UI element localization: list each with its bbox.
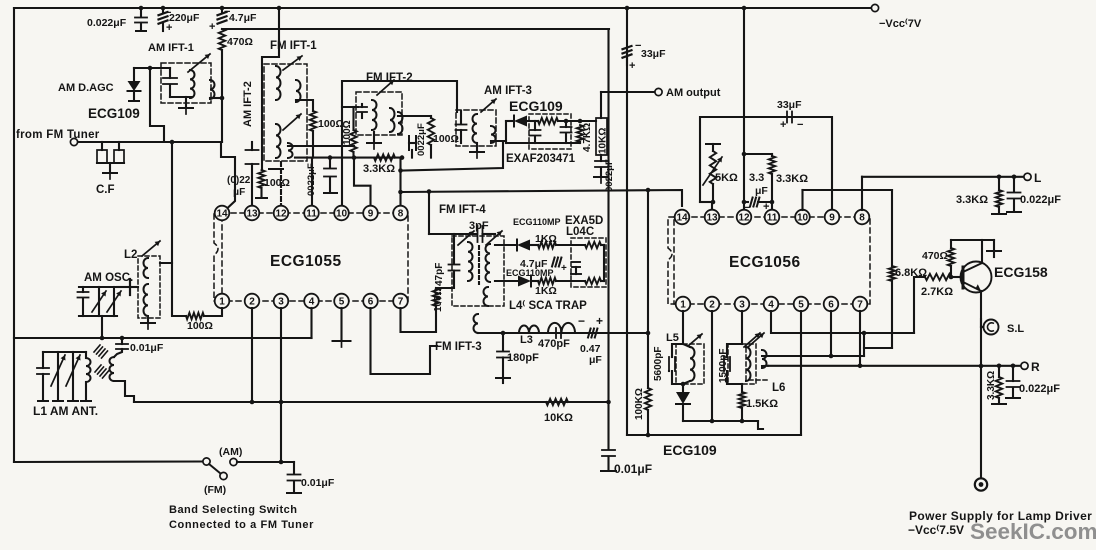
svg-text:3: 3 [278,297,284,308]
capacitor 4.7uF electrolytic [220,6,225,11]
svg-text:+: + [780,119,786,131]
IC ECG1056 pin 3 [735,297,750,312]
coil L2 upper [144,258,149,278]
svg-text:5: 5 [339,297,345,308]
capacitor 0022uF below 10K [600,155,602,161]
ground AM IFT-3 [476,143,478,151]
svg-text:0.01μF: 0.01μF [614,462,652,476]
svg-text:FM IFT-1: FM IFT-1 [270,40,317,52]
svg-text:10KΩ: 10KΩ [544,412,573,424]
wire AM output [601,91,655,93]
wire R output line [1021,362,1028,369]
resistor 100ohm FM IFT-2 left rotated [350,130,356,152]
IC ECG1055 pin 8 [393,206,408,221]
tuning arrow L2 [142,241,160,256]
svg-text:ECG109: ECG109 [509,98,563,114]
svg-text:0022μF: 0022μF [416,123,427,156]
tuning arrow FM IFT-4 right [486,231,502,245]
wire FM IFT-1 top feed [277,6,282,11]
capacitor 33uF electrolytic x627 [623,46,632,49]
IC ECG1056 pin 12 [737,210,752,225]
IC ECG1055 dashed outline [222,213,408,301]
svg-text:470pF: 470pF [538,338,570,350]
svg-text:1: 1 [219,297,225,308]
wire to ECG1056 pin14 [402,190,682,206]
svg-text:AM output: AM output [666,87,721,99]
capacitor 0.01uF switch [293,462,295,474]
coil AM IFT-3 coupling [491,126,496,143]
capacitor C 220uF electrolytic [161,6,166,11]
lamp S.L [981,326,984,328]
wire pin10 to 6.8K line [803,189,893,191]
varicap osc 2 [113,287,115,316]
capacitor 180pF [502,333,504,351]
coil L2 dashed box [138,256,160,318]
wire L6 bottom lead / R line [768,365,1021,367]
svg-text:13: 13 [706,213,718,224]
resistor EXA5D top [585,242,601,248]
diode ECG109 under L5 [681,382,686,387]
svg-text:13: 13 [246,209,258,220]
svg-text:100Ω: 100Ω [264,177,290,189]
svg-text:FM IFT-3: FM IFT-3 [435,341,482,353]
capacitor AM IFT-1 tank [169,68,171,78]
wire L output line [862,176,1024,178]
svg-text:220μF: 220μF [169,12,200,24]
svg-text:L1 AM ANT.: L1 AM ANT. [33,404,98,418]
varicap ant 2 [72,352,74,400]
svg-text:8: 8 [859,213,865,224]
svg-text:6: 6 [828,300,834,311]
capacitor FM IFT-2 tank [361,104,363,107]
coil FM IFT-4 secondary [486,244,490,282]
svg-text:100Ω: 100Ω [318,118,344,130]
tuning arrow FM IFT-2 [377,80,394,95]
svg-text:from FM Tuner: from FM Tuner [16,129,100,141]
wire pin8 stem [399,158,401,206]
wire switch to cap [237,461,294,463]
svg-text:L5: L5 [666,332,679,344]
svg-text:2: 2 [249,297,255,308]
svg-text:L4⁽ SCA TRAP: L4⁽ SCA TRAP [509,299,587,312]
capacitor 0.01uF ant [120,336,125,341]
transistor ECG158 [961,262,992,293]
wire jog to pin 14 [221,142,235,208]
svg-text:ECG158: ECG158 [994,264,1048,280]
wire pin1 stem [682,311,684,344]
transformer L1 primary [86,358,91,382]
coil AM IFT-3 primary [473,114,478,143]
coil FM IFT-1 upper secondary [296,80,301,102]
svg-text:+: + [596,314,603,328]
resistor 470ohm [950,240,952,248]
svg-text:FM IFT-2: FM IFT-2 [366,72,413,84]
resistor 100ohm rotated FM IFT-4 [433,288,439,306]
IC ECG1056 dashed outline [674,217,870,304]
IC ECG1055 pin 11 [304,206,319,221]
wire pin6 stem to L6 top [830,311,832,356]
wire L2 feed from CF line [171,142,173,263]
diode AM D.AGC ECG109 [134,67,170,69]
svg-text:4: 4 [768,300,774,311]
L6 dashed box [746,348,770,380]
antenna caps rail [43,351,86,353]
ceramic filter C.F [101,142,103,150]
resistor 3.3Kohm R rotated [998,366,1000,377]
diode ECG110MP top [517,240,530,251]
diode ECG109 detector [506,120,514,122]
svg-text:1KΩ: 1KΩ [535,285,557,297]
svg-text:FM IFT-4: FM IFT-4 [439,204,486,216]
svg-text:1KΩ: 1KΩ [535,233,557,245]
wire pin13 node [700,201,713,203]
coil L2 lower [143,284,148,316]
svg-text:2.7KΩ: 2.7KΩ [921,286,953,298]
svg-text:R: R [1031,360,1040,374]
wire osc rail to ant line [101,316,103,338]
wire EXAF bottom [506,142,580,144]
wire left border [13,8,15,462]
capacitor 3pF [477,226,479,242]
coil AM IFT-2 lower primary [276,124,281,158]
wire top -Vcc rail [14,7,871,9]
capacitor osc fixed [82,287,84,292]
bar AM IFT-2 bottom [269,168,283,170]
resistor 3.3Kohm L [998,177,1000,190]
IC ECG1055 pin 6 [363,294,378,309]
svg-text:L6: L6 [772,382,785,394]
IC ECG1056 pin 4 [764,297,779,312]
svg-text:L3: L3 [520,334,533,346]
svg-text:470Ω: 470Ω [922,250,948,262]
resistor 4.7Kohm rotated [577,125,583,142]
tank 1500pF dashed box [728,344,756,384]
wire vertical drop x609 [607,29,609,449]
svg-text:10: 10 [336,209,348,220]
wire 470ohm to pin14 node [221,50,223,142]
IC ECG1056 pin 1 [676,297,691,312]
svg-text:4.7μF: 4.7μF [229,12,257,24]
svg-text:−: − [578,314,585,328]
wire coupling out to 100ohm right [398,115,431,117]
wire EXA5D right [603,245,605,281]
svg-text:8: 8 [398,209,404,220]
svg-text:9: 9 [829,213,835,224]
svg-text:7: 7 [857,300,863,311]
svg-text:3pF: 3pF [469,220,489,232]
svg-text:EXAF203471: EXAF203471 [506,153,576,165]
svg-text:10KΩ: 10KΩ [598,128,609,154]
varicap osc 1 [98,287,100,316]
wire pin2 stem [251,308,253,402]
svg-text:0.022μF: 0.022μF [87,17,127,29]
wire L6 top lead [768,355,864,357]
resistor 1.5Kohm [741,384,743,392]
svg-text:3.3KΩ: 3.3KΩ [956,194,988,206]
coil FM IFT-1 upper primary [276,66,281,100]
capacitor 0022uF hanging [329,158,331,168]
svg-text:ECG110MP: ECG110MP [513,217,561,227]
wire pin3 stem [741,311,743,344]
ground L2 [147,318,149,322]
svg-text:AM D.AGC: AM D.AGC [58,82,114,94]
svg-text:3.3KΩ: 3.3KΩ [776,173,808,185]
wire L2 to pin1 [160,263,186,316]
svg-text:0.022μF: 0.022μF [1019,383,1060,395]
wire AM IFT-1 secondary to rail [210,97,222,99]
svg-text:100Ω: 100Ω [187,320,213,332]
core dashes FM IFT-4 [478,246,480,284]
capacitor ant fixed [42,352,44,368]
wire FM IFT-4 top [429,233,476,235]
svg-text:100Ω: 100Ω [342,120,353,145]
svg-text:7: 7 [398,297,404,308]
resistor detector row [527,120,538,122]
wire ant line [14,337,312,339]
resistor 3.3Kohm IF bus [374,154,395,160]
svg-text:μF: μF [589,354,602,366]
svg-text:180pF: 180pF [507,352,539,364]
coil AM IFT-1 primary [190,70,195,98]
wire primary feed [342,106,358,108]
terminal -Vcc 7V [871,4,878,11]
resistor 10Kohm [546,399,568,405]
coil 1500pF tank [746,347,751,381]
coil FM IFT-3 [474,314,479,333]
svg-text:AM OSC.: AM OSC. [84,272,133,284]
wire CF line [78,141,222,143]
IC ECG1055 pin 4 [304,294,319,309]
wire vertical x864 [863,333,865,356]
IC ECG1056 pin 9 [825,210,840,225]
capacitor 0.022uF R [1012,366,1014,381]
resistor 100ohm pin1 [186,313,204,319]
IC ECG1056 pin 6 [824,297,839,312]
transformer FM IFT-2 dashed box [356,92,402,135]
IC ECG1055 pin 2 [245,294,260,309]
varicap ant 1 [57,352,59,400]
svg-text:0022μF: 0022μF [604,159,615,192]
svg-text:14: 14 [216,209,228,220]
resistor 1Kohm top [530,244,538,246]
svg-text:(FM): (FM) [204,484,226,496]
resistor 1Kohm bottom [531,280,538,282]
capacitor EXAF 2 [565,121,567,127]
wire lamp to supply terminal [980,319,982,478]
transformer AM IFT-1 dashed box [161,63,211,103]
wire pin8 to L out [861,177,863,210]
ground collector [993,240,995,250]
coil AM IFT-1 secondary [210,80,215,99]
IC ECG1056 pin 7 [853,297,868,312]
svg-text:+: + [629,60,635,72]
resistor 100Kohm rotated [647,333,649,388]
oscillator caps rail [79,286,129,288]
wire collector [981,240,983,263]
IC ECG1056 pin 14 [675,210,690,225]
resistor 3.3Kohm at pin11 [744,153,772,155]
svg-text:5600pF: 5600pF [653,347,664,381]
svg-text:11: 11 [306,209,317,220]
svg-text:100KΩ: 100KΩ [634,388,645,420]
resistor 10Kohm boxed rotated [600,92,602,118]
IC ECG1055 pin 10 [334,206,349,221]
wire vertical x627 [626,8,628,435]
EXAF dashed box [529,114,571,149]
capacitor 470pF [555,328,557,338]
wire pin10 stem FM IFT-2 frame [341,158,343,206]
svg-text:10: 10 [797,213,809,224]
tuning arrow L5 [688,334,702,346]
wire pin3 stem to switch [280,308,282,462]
wire detector row top [495,244,517,246]
wire AM IFT-3 out [491,121,506,141]
terminal lamp supply [975,478,987,490]
IC ECG1055 pin 12 [274,206,289,221]
svg-text:47pF: 47pF [434,263,445,286]
wire FM IFT-4 feed [428,192,430,235]
IC ECG1055 pin 9 [363,206,378,221]
resistor 100ohm FM IFT-1 load [310,111,316,131]
capacitor 0022uF H style [408,136,410,150]
wire FM IFT-2 frame [342,81,457,158]
svg-text:4.7μF: 4.7μF [520,258,548,270]
capacitor 0.022uF L [1013,177,1015,192]
wire 33uF loop [700,117,832,209]
svg-text:5KΩ: 5KΩ [715,172,738,184]
coil AM IFT-2 lower secondary [288,143,293,158]
IC ECG1055 pin 13 [245,206,260,221]
capacitor AM IFT-3 tank [460,111,462,124]
ground FM IFT-2 [373,132,375,142]
svg-text:C.F: C.F [96,184,115,196]
wire secondary to long line [114,381,134,402]
svg-text:(0)22: (0)22 [227,175,251,186]
ground AM IFT-1 [185,97,187,107]
svg-text:−Vcc⁽7.5V: −Vcc⁽7.5V [908,523,964,537]
svg-text:470Ω: 470Ω [227,36,253,48]
capacitor EXAF 1 [534,121,536,130]
coil L5 [690,347,695,381]
wire 100ohm down to bus [312,131,314,158]
oscillator gate bar [117,286,128,288]
tuning arrow 1500pF tank [744,333,760,347]
switch band select AM [14,460,203,463]
resistor EXA5D bottom [585,278,601,284]
svg-text:2: 2 [709,300,715,311]
svg-text:11: 11 [767,213,778,224]
wire upper secondary to 100ohm [296,100,313,111]
svg-text:3.3KΩ: 3.3KΩ [986,371,997,400]
tuning arrow FM IFT-4 left [458,231,474,245]
svg-text:−: − [797,119,803,131]
wire second top rail [222,28,609,30]
svg-text:L04C: L04C [566,226,594,238]
svg-text:ECG109: ECG109 [88,106,140,121]
wire 168 line [402,143,503,171]
coil L3 [519,326,539,334]
tuning arrow AM IFT-3 [481,99,496,112]
ECG109 box bottom [627,434,801,436]
svg-text:μF: μF [755,185,768,197]
IC ECG1055 pin 3 [274,294,289,309]
wire pin7 to FM IFT-4 [401,306,437,332]
diode ECG110MP bottom [518,276,531,287]
wire collector top rail [951,239,994,241]
svg-text:+: + [209,21,215,33]
capacitor 0.01uF AGC [602,449,615,451]
svg-text:33μF: 33μF [641,48,666,60]
capacitor 3.3uF electrolytic [742,152,747,157]
svg-text:0.01μF: 0.01μF [130,342,164,354]
capacitor 0022uF at pin13 [251,142,253,150]
svg-text:AM IFT-1: AM IFT-1 [148,42,194,54]
tuning arrow FM IFT-1 [283,56,302,70]
resistor 2.7Kohm [914,277,925,333]
wire x648 vertical [647,190,649,333]
wire pin5 ground [340,308,342,340]
tuning arrow AM IFT-1 [188,54,210,72]
resistor 6.8Kohm [891,190,893,266]
transformer FM IFT-4 dashed box [452,236,504,306]
coil FM IFT-2 secondary [390,108,395,132]
capacitor EXA5D mid [572,261,580,263]
wire pin9 jog [354,158,371,206]
IC ECG1056 pin 5 [794,297,809,312]
capacitor 47pF [453,234,455,264]
coil L4 [548,323,575,333]
tuning arrow AM IFT-2 [283,114,301,130]
wire SCA line [478,332,648,334]
IC ECG1056 pin 11 [765,210,780,225]
wire pin4 drop [310,308,312,338]
svg-text:100Ω: 100Ω [433,133,459,145]
dash-dot to pin 12 [280,162,282,206]
wire pin5 stem [800,311,802,435]
capacitor 0.022uF top-left [140,8,142,17]
wire AGC node down to CF line [150,68,164,142]
wire 6.8K bottom link [864,347,892,349]
svg-text:+: + [561,263,567,274]
svg-text:ECG1056: ECG1056 [729,254,801,271]
svg-text:6: 6 [368,297,374,308]
svg-text:Connected to a FM Tuner: Connected to a FM Tuner [169,519,314,531]
resistor 100ohm right [428,118,434,145]
transformer AM IFT-3 dashed box [456,110,496,146]
svg-text:AM IFT-3: AM IFT-3 [484,85,532,97]
wire pin4 line [771,311,914,333]
resistor 5Kohm variable [706,143,720,145]
svg-text:12: 12 [275,209,287,220]
coil FM IFT-4 tertiary [484,287,489,306]
svg-text:μF: μF [233,187,245,198]
svg-text:4.7KΩ: 4.7KΩ [582,123,593,152]
svg-text:ECG109: ECG109 [663,442,717,458]
coil L6 [762,350,767,368]
svg-text:14: 14 [676,213,688,224]
IC ECG1056 pin 13 [705,210,720,225]
coil FM IFT-4 primary [468,242,473,281]
svg-text:3.3KΩ: 3.3KΩ [363,163,395,175]
wire detector out line [134,401,609,403]
transformer L1 core dashes [94,345,100,352]
svg-text:−Vcc⁽7V: −Vcc⁽7V [879,18,922,30]
transformer AM IFT-2 dashed box [264,64,307,161]
wire pin2 stem [711,311,713,421]
svg-text:L2: L2 [124,249,137,261]
svg-text:1: 1 [680,300,686,311]
svg-text:S.L: S.L [1007,323,1024,335]
